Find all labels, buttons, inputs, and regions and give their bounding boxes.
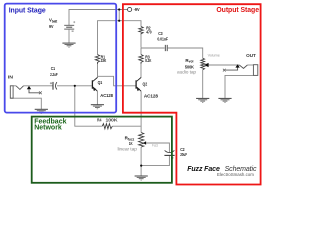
svg-text:0.01uF: 0.01uF [157, 37, 168, 42]
wire R2 bottom to node A [140, 35, 142, 48]
svg-text:Q2: Q2 [143, 81, 148, 86]
terminal -9V circle [128, 7, 132, 11]
svg-text:IN: IN [8, 75, 13, 80]
capacitor C2 plate curved [165, 150, 175, 152]
box feedback network [32, 117, 172, 183]
svg-text:AC128: AC128 [144, 94, 159, 99]
svg-text:Rvol: Rvol [185, 58, 193, 64]
capacitor C2 plate flat [164, 154, 174, 156]
wire vertical between rails [118, 10, 120, 21]
battery bottom stem [68, 29, 70, 43]
svg-text:linear tap: linear tap [118, 147, 138, 152]
capacitor C3 plates [165, 45, 167, 51]
svg-text:20uF: 20uF [180, 152, 187, 157]
potentiometer Rvol zigzag [201, 58, 205, 70]
svg-text:33K: 33K [101, 58, 107, 63]
ground Q1 emitter [91, 105, 104, 109]
ground Rvol [196, 98, 209, 102]
wire top -9V rail from battery to terminal [69, 10, 127, 26]
wire IN jack sleeve to ground [10, 98, 41, 109]
svg-text:1K: 1K [129, 141, 133, 146]
svg-text:Q1: Q1 [98, 80, 103, 85]
svg-text:100K: 100K [106, 118, 119, 123]
battery minus mark [72, 30, 74, 32]
wire R3 bottom to Q2 collector [140, 64, 142, 77]
svg-text:2.2uF: 2.2uF [50, 72, 58, 77]
wiper arrow Rvol [204, 63, 209, 67]
svg-text:Network: Network [34, 125, 62, 132]
svg-text:C3: C3 [158, 31, 163, 36]
ground Rfuzz [135, 176, 148, 180]
svg-text:Output Stage: Output Stage [216, 7, 259, 14]
svg-text:9V: 9V [49, 24, 54, 29]
box input stage [5, 4, 117, 113]
wire node A down to R3 [140, 48, 142, 55]
wire volume wiper to OUT jack [208, 64, 239, 66]
svg-text:ElectroSmash.com: ElectroSmash.com [217, 172, 254, 177]
svg-text:470: 470 [146, 29, 152, 34]
potentiometer Rfuzz zigzag [139, 133, 144, 148]
wire second rail feeding R1 and R2 [98, 21, 142, 55]
wire C1 to Q1 base [57, 85, 92, 87]
svg-text:C1: C1 [51, 66, 56, 71]
node top rail dot [118, 8, 120, 10]
box output stage [123, 4, 261, 184]
ground OUT jack [218, 98, 231, 102]
svg-text:Vbatt: Vbatt [49, 18, 58, 24]
ground IN jack [35, 109, 48, 113]
node Q1 base dot [74, 85, 76, 87]
wire R1 bottom to Q1 collector node [97, 64, 99, 77]
wire node A to C3 [141, 47, 165, 49]
capacitor C1 plus sign [50, 82, 52, 84]
ground battery [62, 43, 75, 47]
wire fuzz wiper to C2 [146, 143, 170, 152]
svg-text:Fuzz Face: Fuzz Face [187, 166, 220, 173]
wire jack tip line IN to C1 [13, 85, 16, 87]
svg-text:OUT: OUT [246, 53, 256, 58]
resistor R1 zigzag [95, 55, 99, 65]
battery Vbatt plates [64, 24, 74, 26]
svg-text:AC128: AC128 [100, 93, 113, 98]
wire feedback from Q1 base node down [75, 86, 103, 126]
capacitor C1 plate flat [52, 82, 54, 90]
wiper arrow Rfuzz [143, 141, 146, 144]
jack IN tip arrow [27, 86, 31, 89]
resistor R4 zigzag [102, 124, 112, 129]
node C2 return dot [140, 165, 142, 167]
node second rail dot [118, 20, 120, 22]
capacitor C1 plate curved [56, 82, 57, 89]
wire volume pot bottom to ground [202, 70, 204, 99]
resistor R3 zigzag [139, 55, 143, 65]
wire R4 right to Q2 emitter column [112, 125, 141, 127]
wire interstage Q1 collector to Q2 base [98, 76, 136, 86]
svg-text:-9V: -9V [134, 7, 140, 12]
jack OUT [223, 65, 258, 76]
resistor R2 zigzag [139, 27, 143, 35]
jack IN [10, 86, 42, 98]
svg-text:Input Stage: Input Stage [9, 7, 46, 14]
wire Q2 emitter down to fuzz pot [140, 91, 142, 132]
wire fuzz pot bottom to ground [140, 147, 142, 176]
wire C3 to volume pot [168, 48, 203, 58]
transistor Q2 [136, 77, 141, 91]
wire Q1 emitter to ground [96, 91, 98, 105]
capacitor C2 plus sign [171, 157, 173, 159]
wire C2 bottom return to ground column [141, 155, 169, 165]
transistor Q1 [92, 77, 97, 91]
svg-text:audio tap: audio tap [177, 70, 197, 75]
svg-text:R4: R4 [97, 118, 102, 123]
svg-text:Fuzz: Fuzz [152, 144, 158, 148]
battery plus mark [73, 21, 75, 23]
svg-text:8.2K: 8.2K [145, 58, 152, 63]
wire OUT jack sleeve to ground [225, 75, 253, 98]
jack OUT tip arrow [235, 64, 239, 67]
svg-text:Volume: Volume [208, 54, 220, 58]
